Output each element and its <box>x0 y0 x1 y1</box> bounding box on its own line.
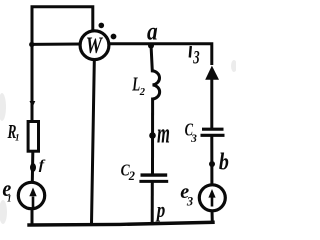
svg-text:m: m <box>157 118 170 150</box>
svg-text:2: 2 <box>139 87 146 98</box>
svg-text:W: W <box>86 32 103 59</box>
svg-text:3: 3 <box>193 48 200 68</box>
svg-text:1: 1 <box>15 132 20 142</box>
svg-text:p: p <box>155 198 165 223</box>
svg-text:2: 2 <box>128 169 135 183</box>
svg-text:3: 3 <box>190 133 197 145</box>
svg-text:f: f <box>39 158 46 173</box>
svg-text:a: a <box>147 18 158 46</box>
svg-text:3: 3 <box>186 194 193 208</box>
svg-text:b: b <box>219 148 229 175</box>
svg-text:1: 1 <box>7 193 12 203</box>
